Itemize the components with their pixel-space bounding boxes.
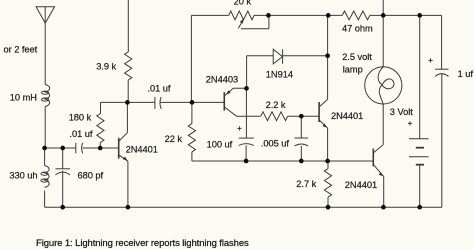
svg-text:3.9 k: 3.9 k [96, 62, 116, 72]
svg-text:+: + [237, 124, 242, 133]
svg-text:2.2 k: 2.2 k [266, 100, 286, 110]
svg-text:1 uf: 1 uf [458, 69, 474, 79]
svg-text:+: + [408, 119, 413, 128]
svg-text:20 k: 20 k [234, 0, 252, 7]
svg-text:+: + [428, 56, 433, 65]
svg-text:Figure 1: Lightning receiver r: Figure 1: Lightning receiver reports lig… [36, 238, 249, 249]
svg-text:10 mH: 10 mH [10, 93, 37, 103]
svg-text:47 ohm: 47 ohm [342, 24, 373, 34]
svg-text:2N4401: 2N4401 [331, 111, 363, 121]
svg-text:2.5 volt: 2.5 volt [342, 52, 372, 62]
svg-text:1N914: 1N914 [266, 69, 293, 79]
svg-text:22 k: 22 k [165, 134, 183, 144]
svg-text:.005 uf: .005 uf [261, 139, 290, 149]
svg-text:or 2 feet: or 2 feet [4, 44, 38, 54]
svg-text:2N4401: 2N4401 [345, 180, 377, 190]
svg-text:2N4401: 2N4401 [126, 145, 158, 155]
svg-text:180 k: 180 k [69, 113, 92, 123]
svg-text:2N4403: 2N4403 [206, 74, 238, 84]
svg-text:.01 uf: .01 uf [70, 129, 93, 139]
svg-text:3 Volt: 3 Volt [390, 107, 413, 117]
svg-text:lamp: lamp [343, 65, 363, 75]
svg-text:330 uh: 330 uh [9, 171, 37, 181]
svg-text:2.7 k: 2.7 k [296, 179, 316, 189]
svg-text:100 uf: 100 uf [207, 139, 233, 149]
svg-text:.01 uf: .01 uf [148, 84, 171, 94]
svg-text:680 pf: 680 pf [78, 170, 104, 180]
